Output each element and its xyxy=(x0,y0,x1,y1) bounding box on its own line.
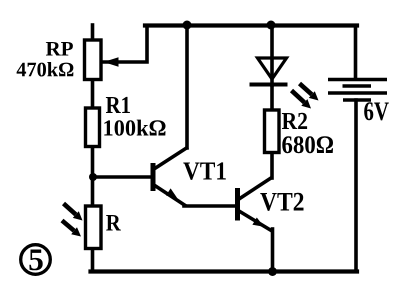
wire VT1 emitter to VT2 base xyxy=(184,204,236,208)
light arrow 1 onto R xyxy=(64,204,83,221)
wire R1 to node A to photoresistor R xyxy=(91,146,95,207)
wire node A to VT1 base xyxy=(93,175,151,179)
LED cathode bar xyxy=(250,83,288,87)
LED light arrow 1 xyxy=(300,84,319,101)
value 470kΩ xyxy=(17,62,74,77)
photoresistor R body xyxy=(86,206,102,249)
wire right vertical to battery plus xyxy=(354,26,358,79)
node junction VT2 emitter / bottom rail xyxy=(268,267,277,276)
label VT1 xyxy=(183,162,226,180)
wire RP wiper to top rail xyxy=(103,26,147,63)
resistor R2 body xyxy=(265,110,280,153)
transistor VT1 collector slant xyxy=(154,147,188,169)
label R1 xyxy=(106,97,130,113)
wire bottom rail xyxy=(91,269,358,273)
light arrow 2 onto R xyxy=(62,221,81,237)
wire VT1 collector to top rail xyxy=(185,26,189,149)
potentiometer RP body xyxy=(85,40,102,80)
value 680Ω xyxy=(282,136,333,153)
transistor VT2 base bar xyxy=(235,188,240,221)
wire LED cathode to R2 xyxy=(270,85,274,110)
transistor VT2 collector slant xyxy=(239,177,273,199)
battery long plate 2 xyxy=(328,91,387,95)
node junction top rail / LED branch xyxy=(267,21,276,30)
label 6V xyxy=(364,102,389,120)
transistor VT1 base bar xyxy=(151,163,156,191)
transistor VT1 emitter slant with arrow xyxy=(154,185,186,206)
battery GB long plate 1 xyxy=(328,78,387,82)
wire photoresistor R to bottom rail xyxy=(91,248,95,272)
wire stub above RP xyxy=(91,25,95,41)
wire RP to R1 xyxy=(91,79,95,109)
LED light arrow 2 xyxy=(292,91,312,109)
figure number 5 circle xyxy=(21,245,51,275)
wire LED branch from top rail xyxy=(270,26,274,86)
LED triangle xyxy=(258,58,287,79)
wire R2 to VT2 collector xyxy=(270,152,274,178)
resistor R1 body xyxy=(86,108,100,147)
label VT2 xyxy=(260,193,303,211)
wire top rail xyxy=(145,23,357,27)
label R2 xyxy=(282,113,307,129)
battery short plate 2 xyxy=(343,98,371,102)
figure number 5 digit xyxy=(29,250,42,271)
wire VT2 emitter to bottom rail xyxy=(271,229,275,272)
label RP xyxy=(46,42,73,56)
battery short plate 1 xyxy=(343,84,372,88)
node A junction R1 / R / VT1 base xyxy=(89,173,97,181)
transistor VT2 emitter slant with arrow xyxy=(239,211,272,231)
node junction top rail / VT1 collector xyxy=(183,21,192,30)
value 100kΩ xyxy=(104,120,165,136)
RP wiper arrowhead xyxy=(104,57,119,67)
wire battery minus to bottom rail xyxy=(354,100,358,272)
label R xyxy=(106,215,121,231)
